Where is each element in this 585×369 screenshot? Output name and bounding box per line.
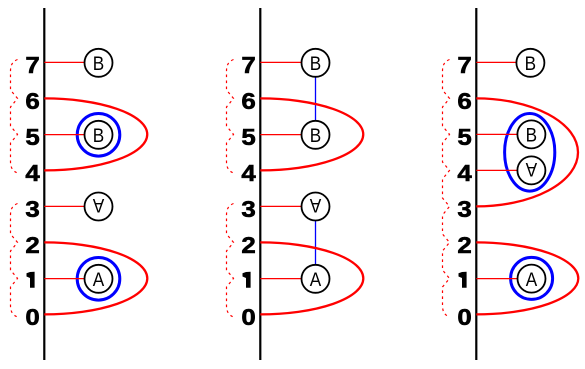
svg-text:4: 4 [25, 161, 40, 187]
red tick line 7 panel 3 [476, 61, 516, 63]
red half-ellipse 2-0 panel 2 [260, 242, 363, 314]
node circle A at 1 panel 2 [302, 265, 330, 293]
node circle B at 7 panel 3 [516, 49, 544, 77]
svg-text:A: A [309, 195, 321, 217]
svg-text:5: 5 [457, 125, 472, 151]
red tick line 1 panel 2 [260, 278, 301, 280]
svg-text:A: A [310, 268, 322, 290]
svg-text:0: 0 [25, 305, 39, 331]
node circle B at 5 panel 1 [85, 121, 113, 149]
red tick line 5 panel 1 [44, 134, 84, 136]
svg-text:2: 2 [25, 233, 39, 259]
svg-text:7: 7 [241, 53, 255, 79]
node circle B at 5 panel 2 [302, 121, 330, 149]
svg-text:A: A [525, 159, 537, 181]
blue ring around B5 panel 1 [77, 114, 120, 157]
svg-text:4: 4 [457, 161, 472, 187]
node circle inverted-A at 3 panel 2 [302, 193, 330, 221]
tick label 1 panel 2 [243, 272, 251, 288]
red half-ellipse 6-3 panel 3 [476, 98, 578, 206]
svg-text:2: 2 [457, 233, 471, 259]
svg-text:7: 7 [25, 53, 39, 79]
dashed brace 7-4 panel 1 [11, 60, 18, 174]
svg-text:2: 2 [241, 233, 255, 259]
svg-text:A: A [92, 195, 104, 217]
red tick line 1 panel 3 [476, 278, 517, 280]
svg-text:3: 3 [457, 197, 471, 223]
svg-text:B: B [310, 124, 321, 146]
blue oval around B5 and A4 panel 3 [505, 114, 555, 192]
dashed brace 7-4 panel 2 [227, 60, 234, 174]
blue ring around A1 panel 3 [511, 257, 553, 299]
svg-text:4: 4 [241, 161, 256, 187]
dashed brace 7-0 panel 3 [443, 60, 450, 318]
svg-text:B: B [310, 52, 321, 74]
tick label 1 panel 1 [27, 272, 35, 288]
svg-text:B: B [525, 52, 536, 74]
blue connector line A3-A1 panel 2 [315, 221, 317, 265]
axis line panel 3 [475, 8, 477, 360]
svg-text:5: 5 [241, 125, 256, 151]
red half-ellipse 2-0 panel 3 [476, 242, 578, 314]
red tick line 7 panel 1 [44, 61, 84, 63]
node circle B at 5 panel 3 [517, 120, 545, 148]
tick label 1 panel 3 [459, 272, 467, 288]
svg-text:6: 6 [241, 89, 255, 115]
svg-text:B: B [93, 52, 104, 74]
svg-text:B: B [526, 124, 537, 146]
svg-text:A: A [93, 268, 105, 290]
red tick line 7 panel 2 [260, 61, 301, 63]
svg-text:5: 5 [25, 125, 40, 151]
svg-text:3: 3 [241, 197, 255, 223]
node circle A at 1 panel 3 [518, 265, 546, 293]
svg-text:6: 6 [25, 89, 39, 115]
red tick line 1 panel 1 [44, 278, 84, 280]
svg-text:6: 6 [457, 89, 471, 115]
red half-ellipse 6-4 panel 2 [260, 98, 363, 170]
red half-ellipse 2-0 panel 1 [44, 242, 147, 314]
red tick line 3 panel 1 [44, 205, 84, 207]
red tick line 5 panel 2 [260, 134, 301, 136]
svg-text:A: A [526, 268, 538, 290]
red tick line 4 panel 3 [476, 169, 517, 171]
node circle B at 7 panel 2 [302, 49, 330, 77]
svg-text:B: B [93, 124, 104, 146]
node circle A at 1 panel 1 [85, 265, 113, 293]
axis line panel 1 [43, 8, 45, 360]
dashed brace 3-0 panel 1 [11, 204, 18, 318]
red tick line 5 panel 3 [476, 133, 517, 135]
svg-text:7: 7 [457, 53, 471, 79]
node circle inverted-A at 3 panel 1 [85, 193, 113, 221]
node circle B at 7 panel 1 [85, 49, 113, 77]
blue ring around A1 panel 1 [77, 258, 120, 301]
red tick line 3 panel 2 [260, 205, 301, 207]
axis line panel 2 [259, 8, 261, 360]
red half-ellipse 6-4 panel 1 [44, 98, 147, 170]
svg-text:0: 0 [457, 305, 471, 331]
svg-text:0: 0 [241, 305, 255, 331]
svg-text:3: 3 [25, 197, 39, 223]
node circle inverted-A at 4 panel 3 [517, 156, 545, 184]
blue connector line B7-B5 panel 2 [315, 77, 317, 121]
dashed brace 3-0 panel 2 [227, 204, 234, 318]
